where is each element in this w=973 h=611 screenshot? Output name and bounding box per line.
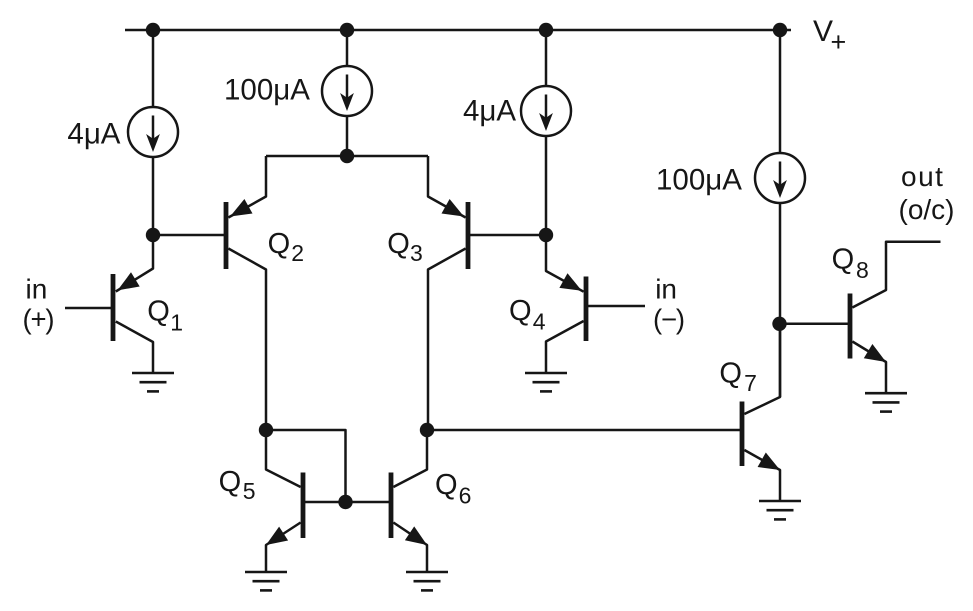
- svg-text:Q: Q: [219, 466, 242, 498]
- svg-text:7: 7: [744, 370, 757, 396]
- svg-text:Q: Q: [832, 244, 855, 276]
- svg-text:in: in: [26, 274, 48, 305]
- svg-text:100μA: 100μA: [656, 164, 742, 197]
- svg-text:Q: Q: [268, 228, 291, 260]
- svg-text:(o/c): (o/c): [899, 194, 955, 225]
- svg-text:Q: Q: [719, 358, 742, 390]
- svg-text:8: 8: [856, 257, 869, 283]
- svg-text:1: 1: [170, 309, 183, 335]
- svg-text:(−): (−): [653, 304, 684, 335]
- svg-text:in: in: [655, 274, 677, 305]
- svg-text:3: 3: [410, 240, 423, 266]
- svg-text:(+): (+): [23, 304, 54, 335]
- svg-text:4μA: 4μA: [67, 118, 120, 151]
- svg-text:5: 5: [243, 478, 256, 504]
- svg-text:4μA: 4μA: [463, 95, 516, 128]
- svg-text:Q: Q: [435, 469, 458, 501]
- svg-text:+: +: [831, 27, 847, 57]
- svg-text:6: 6: [459, 482, 472, 508]
- svg-text:Q: Q: [509, 295, 532, 327]
- svg-text:out: out: [901, 161, 944, 192]
- svg-text:100μA: 100μA: [224, 74, 310, 107]
- svg-text:4: 4: [533, 309, 546, 335]
- svg-text:2: 2: [291, 240, 304, 266]
- svg-text:Q: Q: [147, 295, 170, 327]
- svg-text:Q: Q: [387, 228, 410, 260]
